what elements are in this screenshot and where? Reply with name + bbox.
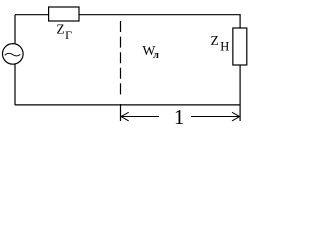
svg-text:Г: Г	[65, 28, 72, 42]
svg-text:Z: Z	[56, 21, 64, 36]
svg-text:1: 1	[174, 105, 185, 129]
svg-text:л: л	[153, 50, 159, 61]
svg-text:Н: Н	[220, 39, 229, 53]
svg-text:Z: Z	[211, 33, 219, 48]
